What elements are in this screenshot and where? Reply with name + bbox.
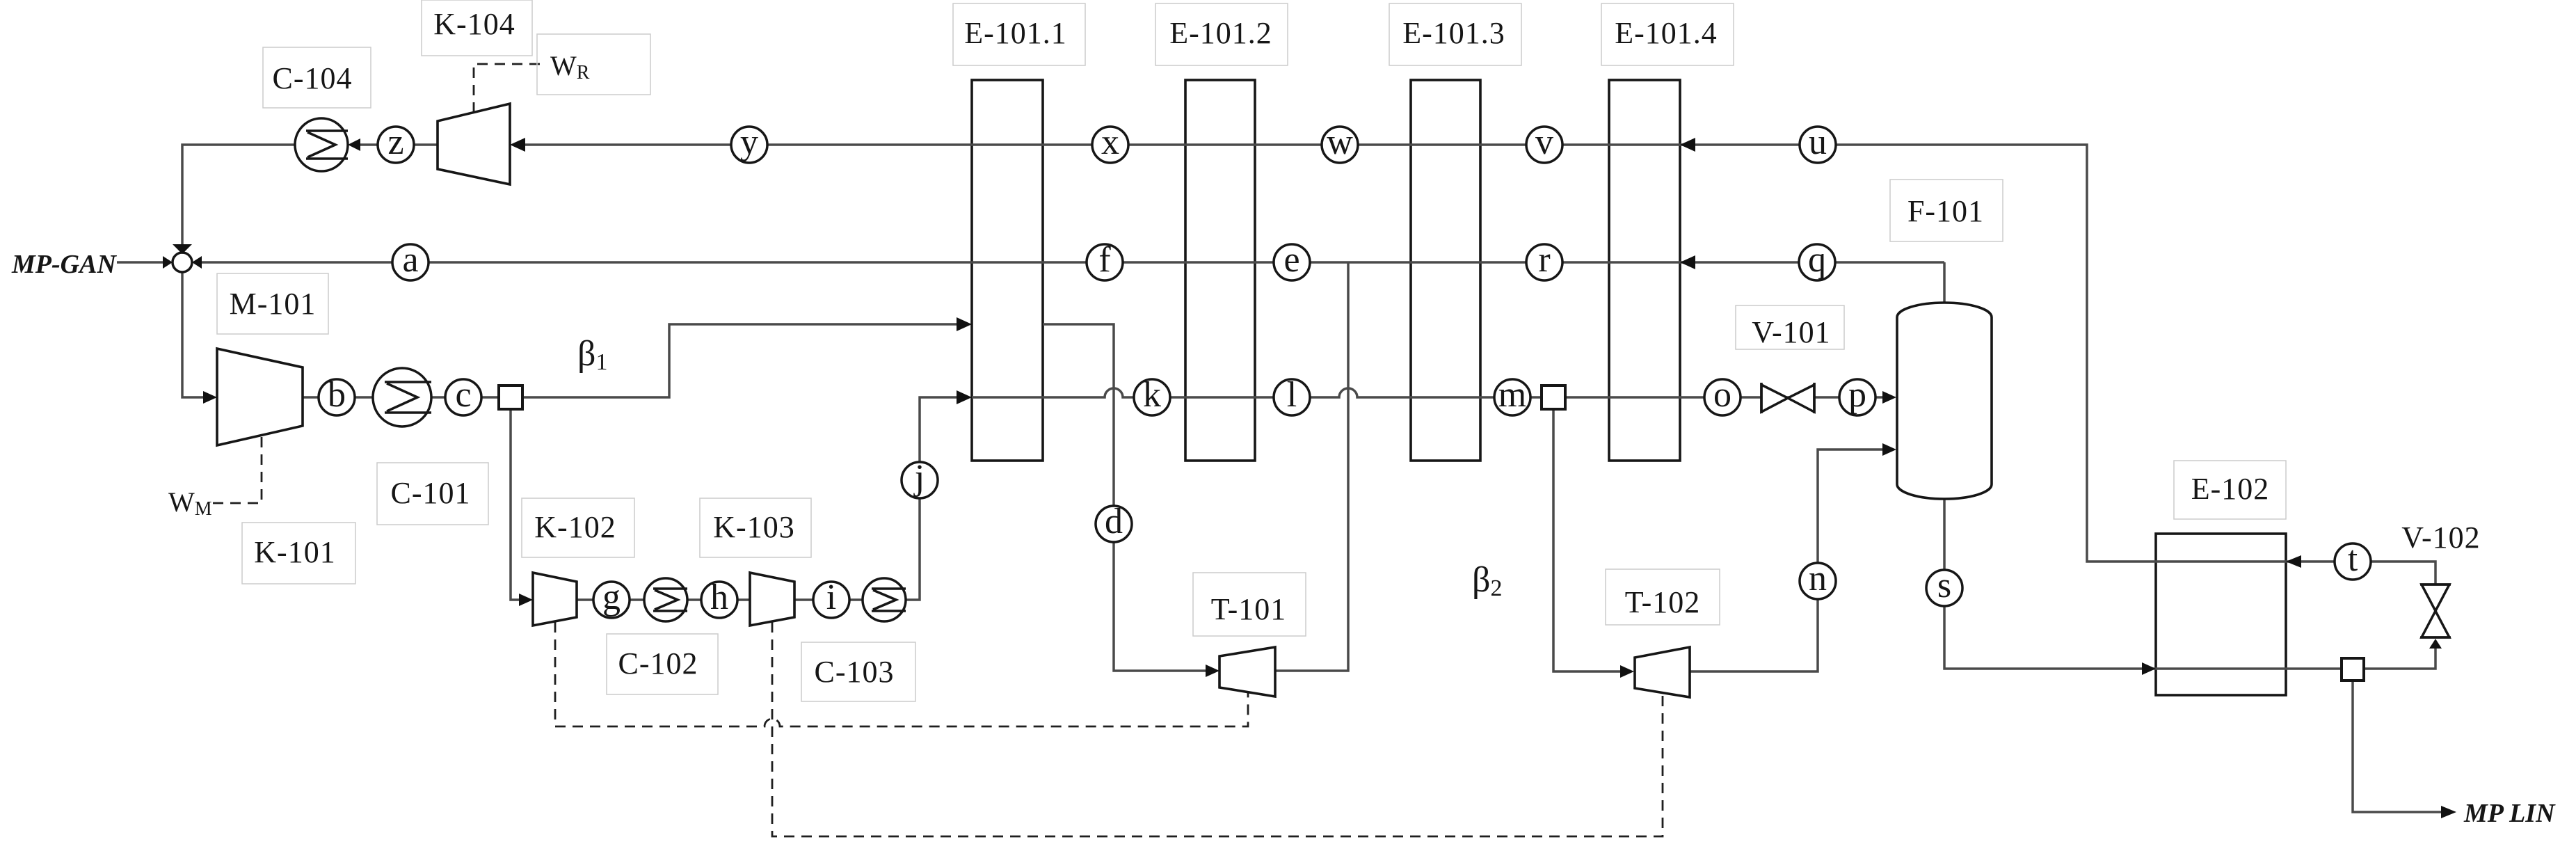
- svg-text:E-101.4: E-101.4: [1615, 16, 1718, 50]
- svg-text:x: x: [1101, 122, 1119, 162]
- exchanger E-102 body: [2156, 534, 2286, 695]
- svg-text:s: s: [1937, 566, 1951, 605]
- label E-101.3: [1389, 3, 1521, 65]
- node h: [701, 578, 737, 618]
- wire beta2 branch square down to T-102: [1553, 409, 1626, 671]
- node l: [1274, 375, 1310, 415]
- arrow into F-101 n line: [1882, 443, 1896, 456]
- cooler C-104: [295, 118, 348, 171]
- svg-text:z: z: [387, 122, 403, 162]
- label C-102: [607, 634, 718, 694]
- svg-text:E-101.3: E-101.3: [1402, 16, 1505, 50]
- label W_R: [537, 34, 650, 95]
- svg-text:l: l: [1287, 375, 1297, 415]
- arrow into E-102 t line: [2286, 555, 2301, 568]
- svg-text:k: k: [1143, 375, 1161, 415]
- node u: [1800, 122, 1836, 163]
- node y: [731, 122, 767, 163]
- wire K-104 to C-104 segment: [351, 143, 438, 146]
- svg-text:MP-GAN: MP-GAN: [11, 250, 117, 279]
- svg-text:V-102: V-102: [2401, 520, 2480, 555]
- svg-text:E-102: E-102: [2191, 472, 2270, 506]
- svg-text:K-103: K-103: [713, 510, 794, 544]
- label T-101: [1193, 573, 1306, 636]
- svg-text:f: f: [1098, 240, 1111, 280]
- label E-102: [2174, 461, 2286, 519]
- splitter square node beta2: [1542, 385, 1565, 409]
- node d: [1096, 502, 1132, 542]
- arrow into V-102 bottom: [2429, 639, 2442, 649]
- arrow into F-101 p line: [1882, 391, 1896, 404]
- wire C-104 to mixer top: [182, 145, 295, 245]
- wire K-102 to C-102 to K-103: [577, 598, 750, 601]
- node o: [1704, 375, 1741, 415]
- node m: [1494, 375, 1530, 415]
- label K-102: [522, 498, 634, 557]
- wire cold line k-l-m through exchangers with two hops: [972, 388, 1888, 397]
- label K-103: [700, 498, 811, 557]
- svg-text:MP LIN: MP LIN: [2463, 799, 2556, 828]
- svg-text:F-101: F-101: [1907, 194, 1984, 228]
- turbine T-102: [1635, 647, 1690, 697]
- node w: [1322, 122, 1358, 163]
- wire beta1 E-101.1 exit down to T-101 inlet: [1043, 324, 1211, 671]
- mixer M-101: [173, 253, 192, 272]
- wire F-101 bottoms s line into E-102: [1944, 498, 2342, 669]
- node f: [1087, 240, 1123, 280]
- svg-text:u: u: [1809, 122, 1827, 162]
- arrow into E-101.1 beta1: [957, 317, 972, 331]
- valve V-101: [1761, 383, 1814, 413]
- dashed W_M work line to K-101: [212, 437, 262, 503]
- label V-101: [1736, 305, 1844, 349]
- label W_M: [168, 486, 212, 520]
- arrow into E-101.4 top line: [1680, 138, 1695, 152]
- label C-104: [263, 47, 371, 108]
- cooler C-101: [373, 368, 431, 427]
- dashed T-101 to K-102 coupling with hop: [555, 622, 1248, 726]
- wire beta1 branch square-up-into E-101.1: [511, 324, 963, 397]
- svg-text:T-102: T-102: [1625, 585, 1701, 619]
- svg-text:i: i: [826, 578, 836, 617]
- label E-101.1: [953, 3, 1085, 65]
- svg-text:M-101: M-101: [230, 287, 317, 321]
- compressor K-102: [533, 573, 577, 626]
- svg-text:c: c: [455, 375, 471, 415]
- arrow into E-101.4 q line: [1680, 255, 1695, 269]
- svg-text:t: t: [2348, 539, 2358, 579]
- cooler C-103: [863, 578, 906, 621]
- valve V-102: [2420, 584, 2451, 637]
- arrow into T-102: [1620, 665, 1634, 678]
- node j: [902, 458, 938, 498]
- arrow into mixer from top: [173, 244, 192, 254]
- svg-text:E-101.2: E-101.2: [1169, 16, 1272, 50]
- svg-text:C-104: C-104: [273, 61, 353, 95]
- svg-text:d: d: [1105, 502, 1123, 541]
- label K-104: [422, 0, 532, 56]
- arrow into T-101: [1206, 665, 1219, 677]
- node k: [1134, 375, 1170, 415]
- node r: [1526, 240, 1562, 280]
- svg-text:E-101.1: E-101.1: [964, 16, 1067, 50]
- svg-text:K-101: K-101: [254, 535, 335, 569]
- cooler C-102: [644, 578, 687, 621]
- wire top recycle u line valve-to-E102-to-K104: [513, 145, 2435, 584]
- svg-text:o: o: [1713, 375, 1731, 415]
- node c: [445, 375, 481, 415]
- compressor K-103: [750, 573, 794, 626]
- label T-102: [1606, 569, 1720, 625]
- arrow into mixer from right: [192, 256, 202, 269]
- exchanger E-101.2 body: [1185, 80, 1255, 461]
- node b: [319, 375, 355, 415]
- wire MP LIN product line: [2353, 681, 2448, 812]
- wire mixer outlet to K-101: [182, 271, 209, 397]
- wire square junction to V-102 bottom: [2364, 647, 2435, 669]
- label K-101: [242, 523, 355, 584]
- svg-text:V-101: V-101: [1752, 315, 1830, 349]
- flash drum F-101: [1897, 303, 1992, 499]
- wire K-103 to C-103 to j riser joining cold line: [794, 397, 963, 600]
- dashed T-102 to K-103 coupling: [772, 622, 1663, 836]
- label E-101.2: [1155, 3, 1288, 65]
- exchanger E-101.3 body: [1411, 80, 1480, 461]
- svg-text:C-101: C-101: [391, 476, 471, 510]
- node t: [2335, 539, 2371, 580]
- splitter square node MP-LIN: [2342, 658, 2364, 681]
- svg-text:e: e: [1283, 240, 1299, 280]
- svg-text:b: b: [328, 375, 346, 415]
- svg-text:K-104: K-104: [433, 7, 515, 41]
- arrow MP LIN outlet: [2441, 806, 2456, 818]
- wire T-102 outlet n line into F-101: [1690, 450, 1888, 671]
- exchanger E-101.4 body: [1609, 80, 1680, 461]
- svg-text:p: p: [1848, 375, 1866, 415]
- wire stream a return line q-to-mixer: [196, 261, 1944, 264]
- arrow into E-102 s line: [2142, 662, 2156, 675]
- svg-text:y: y: [740, 122, 758, 162]
- label C-101: [377, 463, 488, 525]
- node z: [378, 122, 414, 163]
- svg-text:C-103: C-103: [815, 655, 895, 689]
- arrow into mixer from left: [163, 256, 173, 269]
- svg-text:n: n: [1809, 559, 1827, 598]
- svg-text:K-102: K-102: [534, 510, 616, 544]
- svg-text:m: m: [1498, 375, 1526, 415]
- svg-text:w: w: [1327, 122, 1353, 162]
- turbine T-101: [1219, 647, 1275, 697]
- svg-text:r: r: [1538, 240, 1550, 280]
- node x: [1092, 122, 1128, 163]
- svg-text:T-101: T-101: [1211, 592, 1287, 626]
- wire K-101 to C-101 to splitter square: [303, 396, 511, 399]
- svg-text:h: h: [710, 578, 728, 617]
- splitter square node beta1: [499, 385, 522, 409]
- wire MP-GAN inlet stub: [117, 261, 167, 264]
- node e: [1274, 240, 1310, 280]
- svg-text:j: j: [913, 458, 925, 498]
- wire vessel top riser to q line: [1943, 262, 1946, 304]
- svg-text:C-102: C-102: [618, 646, 698, 681]
- label F-101: [1890, 180, 2003, 241]
- label M-101: [217, 273, 328, 334]
- svg-text:a: a: [402, 240, 418, 280]
- node s: [1926, 566, 1962, 606]
- node q: [1799, 240, 1835, 280]
- arrow into C-104: [348, 138, 360, 151]
- node g: [593, 578, 630, 618]
- arrow into E-101.1 cold line: [957, 390, 972, 404]
- node n: [1800, 559, 1836, 599]
- svg-text:g: g: [602, 578, 621, 617]
- node i: [813, 578, 849, 618]
- node v: [1526, 122, 1562, 163]
- label C-103: [801, 642, 915, 701]
- exchanger E-101.1 body: [972, 80, 1043, 461]
- svg-text:q: q: [1808, 240, 1826, 280]
- node a: [392, 240, 429, 280]
- label E-101.4: [1601, 3, 1734, 65]
- wire splitter square down to K-102: [511, 397, 525, 600]
- compressor K-104: [438, 104, 510, 184]
- arrow into K-104: [510, 138, 525, 152]
- svg-text:v: v: [1535, 122, 1553, 162]
- arrow into K-101: [203, 391, 217, 404]
- node p: [1839, 375, 1875, 415]
- wire T-101 exhaust up to e line: [1275, 262, 1348, 671]
- arrow into K-102: [519, 594, 533, 606]
- dashed W_R work line to K-104: [474, 64, 543, 113]
- compressor K-101: [217, 349, 303, 445]
